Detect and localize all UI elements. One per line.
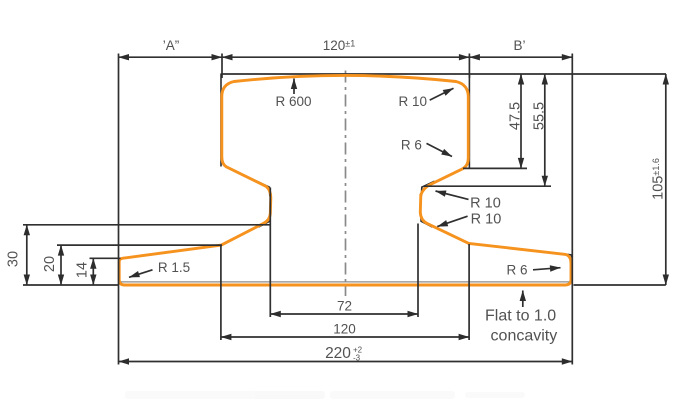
dimension 30 left — [6, 225, 27, 285]
extension line 55.5 bottom — [424, 185, 551, 187]
svg-text:R 1.5: R 1.5 — [158, 260, 190, 275]
foot bottom reference line — [120, 281, 570, 283]
extension line head right / B' left — [468, 54, 470, 79]
svg-text:B’: B’ — [513, 38, 525, 53]
svg-text:R 600: R 600 — [275, 94, 311, 109]
right underside sharp corner tick — [421, 181, 434, 196]
extension line knee left (120) — [220, 246, 222, 340]
svg-text:Flat to 1.0: Flat to 1.0 — [485, 308, 556, 325]
foot right edge sharp corner tick — [562, 254, 572, 263]
head right side construction line — [468, 74, 470, 169]
head left side construction line — [220, 74, 222, 167]
rail profile outline — [119, 76, 571, 285]
svg-text:’A”: ’A” — [163, 38, 180, 53]
extension line 14 top — [90, 257, 121, 259]
dimension 120 bottom — [221, 322, 469, 338]
extension line knee right (120) — [468, 244, 470, 340]
extension line 20 top — [57, 244, 222, 246]
svg-text:R 10: R 10 — [399, 94, 428, 109]
dimension B' top — [469, 38, 572, 57]
svg-text:220: 220 — [325, 345, 351, 362]
note flat to 1.0 concavity with leader — [485, 291, 557, 345]
extension line 30 top — [23, 224, 270, 226]
extension line right outer (full height) — [571, 54, 573, 365]
faint artifact band bottom — [125, 391, 525, 399]
svg-text:R 6: R 6 — [506, 263, 527, 278]
left web-foot sharp corner tick — [259, 212, 271, 227]
label R 6 foot right with leader — [506, 263, 560, 278]
extension line 47.5 bottom — [463, 167, 527, 169]
svg-text:R 10: R 10 — [470, 196, 501, 212]
label R 10 web lower with leader — [437, 212, 501, 228]
svg-text:R 10: R 10 — [471, 212, 502, 228]
label R 6 head bottom with leader — [401, 138, 452, 157]
svg-text:120: 120 — [333, 322, 356, 337]
svg-text:-3: -3 — [353, 354, 361, 363]
dimension 55.5 vertical — [532, 74, 548, 186]
svg-text:72: 72 — [337, 299, 352, 314]
dimension 14 left — [75, 258, 94, 285]
svg-text:concavity: concavity — [491, 328, 558, 345]
svg-text:R 6: R 6 — [401, 138, 422, 153]
svg-text:105±1.6: 105±1.6 — [651, 158, 667, 200]
right web-foot sharp corner tick — [421, 212, 433, 227]
svg-text:55.5: 55.5 — [532, 102, 548, 130]
dimension 20 left — [42, 245, 61, 285]
dimension 105 +/-1.6 right — [651, 74, 667, 285]
left underside sharp corner tick — [256, 181, 270, 196]
svg-text:14: 14 — [75, 262, 91, 278]
label R 10 head top with leader — [399, 88, 454, 109]
svg-text:30: 30 — [6, 251, 22, 267]
centerline — [345, 71, 347, 297]
extension line web left (72) — [269, 188, 271, 318]
label R 10 web upper with leader — [436, 191, 501, 212]
dimension 120 +/-1 top — [222, 38, 469, 57]
dimension 72 bottom — [270, 299, 418, 315]
head top tangent line — [221, 73, 667, 75]
svg-text:47.5: 47.5 — [508, 102, 524, 130]
extension line 105 bottom — [574, 284, 666, 286]
dimension 'A horizontal — [119, 38, 223, 57]
extension line left bottom — [23, 284, 119, 286]
svg-text:120±1: 120±1 — [323, 38, 355, 53]
extension line web right (72) — [417, 224, 419, 318]
extension line left outer (full height) — [118, 54, 120, 365]
label R 600 with leader — [275, 79, 311, 110]
dimension 47.5 vertical — [508, 74, 524, 168]
extension line head left top — [221, 54, 223, 79]
svg-text:20: 20 — [42, 256, 58, 272]
dimension 220 +2/-3 bottom — [119, 345, 573, 363]
label R 1.5 foot left with leader — [129, 260, 190, 277]
